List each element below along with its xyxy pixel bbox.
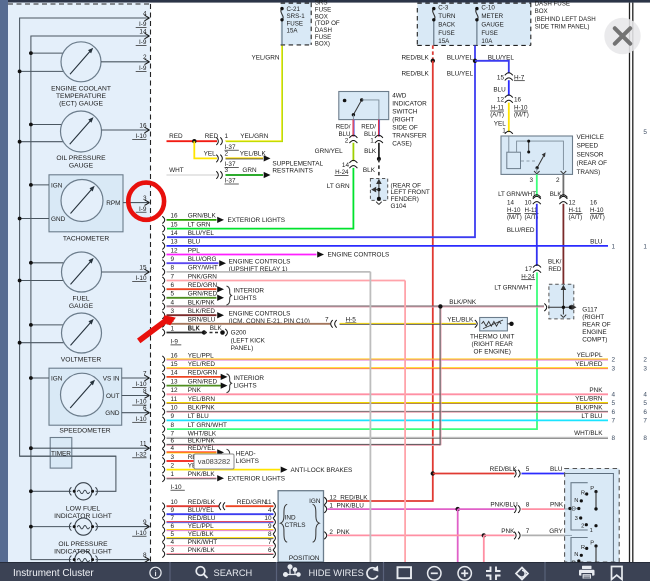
svg-text:PNK/BLU: PNK/BLU [490, 502, 518, 509]
pin 9 I-10 (oil lamp) [96, 526, 150, 528]
svg-text:HEAD-: HEAD- [236, 451, 256, 458]
SRS fuse box dashed border [310, 3, 312, 45]
VSS pickup coil box [507, 152, 521, 168]
svg-text:PNK: PNK [188, 387, 202, 394]
svg-text:INDICATOR: INDICATOR [392, 100, 427, 107]
svg-text:6: 6 [643, 409, 647, 416]
toolbar zoom-out icon [428, 567, 441, 580]
svg-text:I-9: I-9 [139, 39, 147, 46]
svg-text:OIL PRESSURE: OIL PRESSURE [56, 155, 106, 162]
pin 15 I-10 (fuel) [102, 271, 150, 273]
svg-text:C-21: C-21 [287, 6, 301, 13]
ground G104 box [370, 179, 387, 201]
svg-text:BLK/PNK: BLK/PNK [188, 438, 216, 445]
pin 3 I-9 (RPM) [123, 202, 128, 204]
svg-text:BLU/RED: BLU/RED [507, 227, 535, 234]
annotation red arrow [137, 315, 176, 343]
toolbar background [0, 562, 650, 581]
svg-text:8: 8 [143, 388, 147, 395]
svg-text:RED/GRN: RED/GRN [237, 499, 267, 506]
svg-text:SEARCH: SEARCH [214, 568, 253, 578]
svg-text:BLK: BLK [363, 167, 376, 174]
wire cluster pin 10 RED/BLK to ind ctrls pin 11 [162, 503, 164, 510]
svg-text:8: 8 [143, 552, 147, 559]
svg-text:LT GRN/WHT: LT GRN/WHT [494, 284, 532, 291]
svg-text:10: 10 [171, 499, 179, 506]
svg-text:R: R [581, 545, 585, 551]
svg-text:SENSOR: SENSOR [577, 151, 604, 158]
interior lights arrows (I-9 rows 6,5) [217, 286, 224, 292]
wire PNK/BLU drop [457, 509, 459, 562]
svg-text:12: 12 [171, 247, 179, 254]
wire I-10 pin 9 LT BLU [162, 417, 164, 424]
svg-text:GRN/RED: GRN/RED [188, 291, 218, 298]
svg-text:10: 10 [171, 405, 179, 412]
lamp low fuel indicator [75, 483, 92, 500]
svg-text:YEL/BLK: YEL/BLK [188, 531, 215, 538]
svg-text:RED/BLK: RED/BLK [490, 466, 518, 473]
pin 15 H-7 [505, 73, 513, 76]
svg-text:7: 7 [325, 316, 329, 323]
svg-text:PNK: PNK [501, 528, 515, 535]
svg-text:5: 5 [643, 129, 647, 136]
svg-text:IND: IND [285, 515, 296, 522]
svg-text:WHT/BLK: WHT/BLK [574, 430, 603, 437]
svg-text:1: 1 [612, 243, 616, 250]
svg-text:I-9: I-9 [139, 65, 147, 72]
svg-text:3: 3 [612, 365, 616, 372]
svg-text:BLU: BLU [550, 466, 563, 473]
toolbar search icon [196, 567, 205, 576]
svg-text:12: 12 [569, 199, 576, 206]
svg-text:10A: 10A [481, 38, 493, 45]
VSS sensor bar [528, 141, 530, 153]
gauge speedometer [61, 373, 104, 416]
svg-text:(LEFT KICK: (LEFT KICK [231, 337, 266, 344]
svg-text:IGN: IGN [51, 376, 63, 383]
4WD switch internals [343, 99, 347, 103]
svg-text:G200: G200 [231, 330, 247, 337]
svg-text:8: 8 [643, 435, 647, 442]
svg-text:15: 15 [171, 221, 179, 228]
svg-text:RED/: RED/ [361, 123, 376, 130]
wire ind ctrls pin 1 PNK/BLU [324, 505, 326, 513]
fuse C-10 [476, 9, 478, 20]
svg-text:INDICATOR LIGHT: INDICATOR LIGHT [54, 513, 112, 520]
svg-text:(A/T): (A/T) [490, 112, 504, 119]
svg-text:3: 3 [171, 547, 175, 554]
wire tach GND to bus1 [20, 218, 49, 220]
svg-text:3: 3 [225, 167, 229, 174]
svg-text:H-24: H-24 [521, 273, 535, 280]
wire I-10 pin 13 GRN/RED [162, 382, 164, 389]
wire cluster pin 3 PNK/BLK to ind ctrls pin 6 [162, 550, 164, 557]
svg-text:5: 5 [643, 400, 647, 407]
svg-text:VOLTMETER: VOLTMETER [61, 356, 102, 363]
svg-text:BLK: BLK [550, 191, 563, 198]
svg-text:6: 6 [171, 523, 175, 530]
dash fuse box [417, 3, 531, 46]
svg-text:2: 2 [643, 357, 647, 364]
svg-text:GND: GND [105, 410, 120, 417]
svg-text:1: 1 [171, 325, 175, 332]
junction PNK/BLU [456, 507, 460, 511]
svg-text:RED: RED [548, 266, 562, 273]
junction RED/BLK [431, 471, 435, 475]
svg-text:LIGHTS: LIGHTS [234, 383, 257, 390]
svg-text:BLK/PNK: BLK/PNK [449, 299, 477, 306]
panel dashed border [8, 3, 151, 5]
VSS switch lever [537, 156, 543, 168]
svg-text:LT GRN: LT GRN [188, 221, 211, 228]
ind ctrls right brace [313, 504, 320, 542]
svg-text:GAUGE: GAUGE [481, 21, 503, 28]
VSS output arrows [536, 168, 538, 172]
svg-text:YEL/BRN: YEL/BRN [188, 396, 216, 403]
svg-text:P: P [590, 540, 594, 546]
shift indicator dashed box [565, 469, 620, 563]
svg-text:7: 7 [643, 418, 647, 425]
wire timer low side [20, 455, 116, 457]
svg-text:EXTERIOR LIGHTS: EXTERIOR LIGHTS [228, 217, 286, 224]
svg-text:ENGINE CONTROLS: ENGINE CONTROLS [328, 252, 390, 259]
svg-text:3: 3 [643, 365, 647, 372]
svg-text:BLU/YEL: BLU/YEL [188, 507, 215, 514]
svg-text:4WD: 4WD [392, 92, 407, 99]
svg-text:FUSE: FUSE [438, 30, 455, 37]
svg-text:(BEHIND LEFT DASH: (BEHIND LEFT DASH [535, 16, 596, 23]
svg-text:6: 6 [143, 405, 147, 412]
svg-text:1: 1 [370, 137, 374, 144]
svg-text:15: 15 [139, 264, 147, 271]
ground G117 box [549, 284, 574, 319]
svg-text:11: 11 [140, 441, 147, 448]
svg-text:CTRLS: CTRLS [285, 522, 306, 529]
svg-text:WHT: WHT [169, 167, 184, 174]
dash fuse box dashed border [416, 8, 418, 45]
toolbar fit icon [486, 567, 501, 581]
svg-text:BLK/RED: BLK/RED [188, 308, 216, 315]
svg-text:RED/BLK: RED/BLK [401, 71, 429, 78]
svg-text:BLK/PNK: BLK/PNK [188, 299, 216, 306]
svg-text:(M/T): (M/T) [590, 214, 605, 221]
selector 2 lever [595, 546, 597, 562]
wire RED/BLK dashed segment [432, 45, 434, 60]
svg-text:(REAR OF: (REAR OF [577, 160, 608, 167]
svg-text:GAUGE: GAUGE [69, 303, 94, 310]
svg-text:14: 14 [171, 230, 179, 237]
wire I-9 pin 12 PPL [162, 251, 164, 258]
svg-text:I-9: I-9 [171, 339, 179, 346]
svg-text:7: 7 [612, 418, 616, 425]
svg-text:RED/: RED/ [336, 123, 351, 130]
wire I-10 pin 4 RED/YEL [162, 449, 164, 456]
toolbar info icon [150, 567, 161, 578]
wire I-10 pin 15 YEL/RED [162, 365, 164, 372]
splice dot [194, 140, 217, 142]
svg-text:RED/BLK: RED/BLK [188, 499, 216, 506]
wire ind ctrls pin 2 PNK [324, 532, 326, 540]
svg-text:5: 5 [171, 291, 175, 298]
wire PNK drop [483, 535, 485, 562]
svg-text:BLK: BLK [210, 325, 223, 332]
svg-text:6: 6 [171, 438, 175, 445]
svg-text:RPM: RPM [106, 200, 120, 207]
svg-text:4: 4 [171, 299, 175, 306]
svg-text:BLU/YEL: BLU/YEL [447, 71, 474, 78]
svg-text:C-10: C-10 [481, 5, 495, 12]
svg-text:I-32: I-32 [135, 451, 146, 458]
wire tach IGN to bus2 [31, 184, 49, 186]
toolbar zoom-in icon [458, 567, 471, 580]
pin 6 I-10 (GND) [122, 412, 150, 414]
svg-text:1: 1 [171, 471, 175, 478]
svg-text:10: 10 [264, 515, 272, 522]
svg-text:TEMPERATURE: TEMPERATURE [56, 93, 107, 100]
connector 12 H-11 / 16 H-10 [505, 95, 513, 98]
fuse C-3 [433, 9, 435, 20]
svg-text:9: 9 [171, 507, 175, 514]
wire I-9 pin 1 BLK [162, 329, 164, 336]
wire I-9 pin 15 LT GRN [162, 225, 164, 232]
svg-text:GRY/WHT: GRY/WHT [188, 265, 218, 272]
lamp (partially hidden) [75, 551, 92, 568]
svg-text:15: 15 [171, 361, 179, 368]
wire I-10 pin 2 YEL [162, 466, 164, 473]
svg-text:15A: 15A [287, 28, 299, 35]
svg-text:9: 9 [268, 523, 272, 530]
thermo unit box [480, 318, 508, 331]
svg-text:GRN/YEL: GRN/YEL [315, 148, 344, 155]
svg-text:1: 1 [590, 528, 593, 534]
svg-text:RED/GRN: RED/GRN [188, 370, 218, 377]
svg-text:Instrument Cluster: Instrument Cluster [13, 568, 94, 579]
svg-text:SWITCH: SWITCH [392, 108, 418, 115]
thermo unit resistor [482, 321, 502, 326]
svg-text:7: 7 [143, 370, 147, 377]
wire fuel gauge to bus2 [31, 262, 64, 264]
svg-text:SIDE TRIM PANEL): SIDE TRIM PANEL) [535, 24, 590, 31]
svg-text:7: 7 [171, 430, 175, 437]
svg-text:9: 9 [171, 413, 175, 420]
wire I-10 pin 6 BLK/PNK [162, 441, 164, 448]
junction PNK [482, 533, 486, 537]
svg-text:14: 14 [139, 28, 147, 35]
svg-text:11: 11 [171, 396, 178, 403]
connector 12 H-11 / 16 H-10 (pin2 side) [559, 196, 567, 199]
wire cluster pin 5 YEL/BLK to ind ctrls pin 8 [162, 535, 164, 542]
svg-text:GRN/RED: GRN/RED [188, 378, 218, 385]
vehicle speed sensor box [501, 136, 573, 174]
svg-text:4: 4 [143, 10, 147, 17]
wire I-10 pin 1 PNK/BLK [162, 475, 164, 482]
svg-text:I-10: I-10 [135, 133, 146, 140]
svg-text:OF ENGINE): OF ENGINE) [474, 348, 511, 355]
svg-text:YEL/PPL: YEL/PPL [577, 352, 603, 359]
wire oil gauge to bus2 [31, 124, 64, 126]
svg-text:PNK/BLK: PNK/BLK [188, 471, 216, 478]
headlights brace rows 4,3 [227, 449, 232, 468]
svg-text:YEL/BRN: YEL/BRN [575, 396, 603, 403]
svg-text:FUEL: FUEL [72, 296, 89, 303]
svg-text:1: 1 [643, 243, 647, 250]
pin 1 I-37 [216, 137, 218, 145]
svg-text:PNK/WHT: PNK/WHT [188, 539, 218, 546]
svg-text:RED/YEL: RED/YEL [188, 445, 216, 452]
4WD indicator switch box [339, 92, 389, 120]
svg-text:YEL/PPL: YEL/PPL [188, 352, 214, 359]
wire oil lamp to bus2 [31, 526, 71, 528]
gauge voltmeter [62, 313, 102, 353]
wire LT GRN/WHT down to row 8 [167, 272, 537, 429]
pin 2 I-37 [216, 155, 218, 163]
wire I-10 pin 12 PNK [162, 391, 164, 398]
svg-text:GRY: GRY [549, 528, 563, 535]
svg-text:H-10: H-10 [507, 207, 521, 214]
wire I-10 pin 14 RED/GRN [162, 373, 164, 380]
wire I-9 pin 6 RED/GRN [162, 286, 164, 293]
svg-text:BLK: BLK [188, 325, 201, 332]
svg-text:RED: RED [205, 133, 219, 140]
svg-text:BLU/YEL: BLU/YEL [188, 230, 215, 237]
svg-text:4: 4 [643, 392, 647, 399]
toolbar hide-wires icon [284, 565, 301, 577]
wire RED/BLK vertical [432, 61, 434, 474]
svg-text:FUSE: FUSE [481, 30, 498, 37]
svg-text:8: 8 [526, 502, 530, 509]
svg-text:D: D [572, 506, 576, 512]
svg-text:G104: G104 [391, 203, 407, 210]
svg-text:va083282: va083282 [198, 457, 230, 466]
svg-text:H-10: H-10 [514, 105, 528, 112]
svg-text:RED/BLK: RED/BLK [401, 55, 429, 62]
wire cluster pin 9 BLU/YEL to ind ctrls pin 4 [162, 511, 164, 518]
wire low fuel lamp to bus2 [31, 490, 71, 492]
svg-text:7: 7 [171, 273, 175, 280]
svg-text:8: 8 [268, 531, 272, 538]
wire BLK/PNK riser (row 6 to row 4 junction) [439, 306, 441, 445]
svg-text:SRS-1: SRS-1 [287, 13, 306, 20]
svg-text:LIGHTS: LIGHTS [236, 458, 259, 465]
wire stub pin 8 into selector [565, 508, 577, 511]
VSS internal feed [517, 141, 564, 170]
svg-text:PNK/BLK: PNK/BLK [188, 547, 216, 554]
svg-text:SIDE OF: SIDE OF [392, 124, 418, 131]
svg-text:PNK: PNK [589, 387, 603, 394]
instrument cluster panel [8, 3, 151, 563]
pin 8 (third lamp) [96, 559, 150, 561]
svg-text:PNK: PNK [550, 502, 564, 509]
wire stub pin 7 into selector 2 [565, 534, 572, 536]
wire I-10 pin 8 LT GRN/WHT [162, 426, 164, 433]
svg-text:H-11: H-11 [491, 105, 505, 112]
svg-text:7: 7 [171, 515, 175, 522]
fuse box C-21 SRS-1 [281, 3, 312, 45]
svg-text:BLU: BLU [590, 239, 603, 246]
wire I-9 pin 9 BLU/ORG [162, 260, 164, 267]
G117 internals [562, 287, 564, 315]
svg-text:2: 2 [612, 357, 616, 364]
connector 17 H-24 [533, 265, 541, 268]
svg-text:BLU/YEL: BLU/YEL [447, 55, 474, 62]
svg-text:BACK: BACK [438, 21, 456, 28]
svg-text:SUPPLEMENTAL: SUPPLEMENTAL [272, 161, 323, 168]
close button [604, 18, 640, 54]
timer box [50, 438, 72, 469]
wire I-9 pin 5 GRN/RED [162, 294, 164, 301]
svg-text:9: 9 [143, 519, 147, 526]
wire ECT to bus2 [31, 52, 64, 54]
wire I-10 pin 11 YEL/BRN [162, 399, 164, 406]
wire cluster pin 7 RED/BLU to ind ctrls pin 10 [162, 519, 164, 526]
svg-text:COMPT): COMPT) [582, 336, 607, 343]
svg-text:(M/T): (M/T) [507, 214, 522, 221]
svg-text:SPEEDOMETER: SPEEDOMETER [59, 427, 110, 434]
svg-text:13: 13 [171, 378, 179, 385]
svg-text:I-10: I-10 [171, 484, 182, 491]
svg-text:(RIGHT REAR: (RIGHT REAR [471, 341, 513, 348]
junction [431, 59, 435, 63]
svg-text:PANEL): PANEL) [231, 345, 254, 352]
svg-text:RED/GRN: RED/GRN [188, 282, 218, 289]
svg-text:G117: G117 [582, 307, 598, 314]
svg-text:2: 2 [345, 137, 349, 144]
svg-text:3: 3 [529, 177, 533, 184]
svg-text:INTERIOR: INTERIOR [234, 375, 265, 382]
toolbar bookmark icon [612, 567, 623, 580]
wire bus 1 (gauges low-side to pin 4) [20, 18, 150, 491]
svg-text:6: 6 [171, 282, 175, 289]
svg-text:YEL/PPL: YEL/PPL [188, 523, 214, 530]
svg-text:H-10: H-10 [590, 207, 604, 214]
fuse C-21 [281, 9, 283, 20]
svg-text:LT BLU: LT BLU [581, 413, 602, 420]
pin 4 I-9 [30, 17, 150, 19]
wire bus 2 (gauges high-side to pin 14) [31, 36, 150, 560]
page edge double line [629, 3, 631, 562]
wire timer feed from bus2 / pin 11 [31, 447, 128, 449]
svg-text:RESTRAINTS: RESTRAINTS [272, 168, 312, 175]
lamp oil pressure indicator [75, 518, 92, 535]
svg-text:I-10: I-10 [135, 416, 146, 423]
selector 1 lever [595, 492, 597, 509]
svg-text:LT GRN/WHT: LT GRN/WHT [188, 422, 227, 429]
svg-text:RED: RED [169, 133, 183, 140]
svg-text:(A/T): (A/T) [569, 214, 583, 221]
svg-text:11: 11 [265, 499, 272, 506]
svg-text:H-5: H-5 [346, 316, 357, 323]
svg-text:BLK/PNK: BLK/PNK [576, 404, 604, 411]
toolbar rotate icon [516, 568, 528, 580]
svg-text:WHT/BLK: WHT/BLK [188, 430, 217, 437]
interior lights arrows (I-10 rows 14,13) [221, 374, 228, 380]
svg-text:EXTERIOR LIGHTS: EXTERIOR LIGHTS [228, 476, 286, 483]
svg-text:15: 15 [497, 74, 505, 81]
fuse C-21 lead [281, 20, 283, 45]
wire I-10 pin 7 WHT/BLK [162, 434, 164, 441]
svg-text:12: 12 [497, 97, 505, 104]
svg-text:YEL/BLK: YEL/BLK [447, 316, 474, 323]
wire I-9 pin 2 BRN/BLU [162, 320, 164, 327]
svg-text:I-37: I-37 [225, 178, 236, 185]
VSS pickup lead [508, 136, 510, 152]
svg-text:YEL: YEL [204, 151, 217, 158]
svg-text:THERMO UNIT: THERMO UNIT [470, 333, 514, 340]
svg-text:3: 3 [171, 454, 175, 461]
svg-text:N: N [574, 498, 578, 504]
wire I-10 pin 10 BLK/PNK [162, 408, 164, 415]
svg-text:C-3: C-3 [438, 5, 449, 12]
